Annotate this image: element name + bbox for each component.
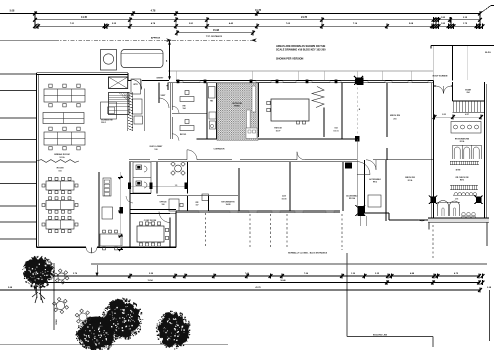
svg-text:RR 104: RR 104 <box>349 197 355 200</box>
svg-text:SCALE DRAWING #16 BLDG KEY 102: SCALE DRAWING #16 BLDG KEY 102-200 <box>276 48 326 51</box>
svg-text:201 A: 201 A <box>408 179 413 182</box>
svg-text:1.75: 1.75 <box>455 199 458 201</box>
svg-text:104 B: 104 B <box>226 203 231 206</box>
svg-text:B RM: B RM <box>456 170 461 172</box>
svg-text:BUILDING LINE: BUILDING LINE <box>373 334 388 336</box>
svg-text:RM 108: RM 108 <box>274 128 282 130</box>
svg-text:RM 105: RM 105 <box>180 134 186 136</box>
svg-text:ROOM: ROOM <box>57 168 64 170</box>
svg-text:101 A: 101 A <box>59 156 65 159</box>
svg-text:102-1: 102-1 <box>101 122 107 124</box>
svg-text:BLDG: BLDG <box>485 52 491 54</box>
svg-text:16.46: 16.46 <box>280 279 286 282</box>
svg-text:SHOWN PER VERSION: SHOWN PER VERSION <box>276 58 304 61</box>
svg-text:2.03: 2.03 <box>442 114 446 116</box>
svg-text:11.54: 11.54 <box>147 279 153 282</box>
svg-text:MECH RM: MECH RM <box>405 177 415 179</box>
svg-text:4.57: 4.57 <box>465 113 469 116</box>
svg-text:MECH RM: MECH RM <box>390 115 400 117</box>
svg-text:204: 204 <box>467 91 470 94</box>
svg-text:APPROX: APPROX <box>151 37 161 40</box>
svg-text:ENTRY: ENTRY <box>157 78 164 80</box>
svg-text:41.78: 41.78 <box>255 286 261 289</box>
svg-text:15.98: 15.98 <box>213 29 220 32</box>
svg-text:BREAK ROOM: BREAK ROOM <box>54 153 69 156</box>
svg-text:WTR: WTR <box>133 84 138 86</box>
svg-text:101 E: 101 E <box>282 199 288 201</box>
svg-text:RM 2: RM 2 <box>460 180 464 182</box>
svg-text:NORMALLY CLOSED - BLDG ENTRANC: NORMALLY CLOSED - BLDG ENTRANCE <box>288 252 328 255</box>
svg-text:ROAD: ROAD <box>55 319 58 325</box>
svg-text:VEST: VEST <box>161 95 167 97</box>
svg-text:101 G: 101 G <box>333 130 339 132</box>
svg-text:106: 106 <box>162 204 165 206</box>
svg-text:24.78: 24.78 <box>301 16 308 19</box>
svg-text:14.45: 14.45 <box>81 16 88 19</box>
svg-text:ELEV LOBBY: ELEV LOBBY <box>150 146 163 148</box>
svg-text:TYP. DISTANCE: TYP. DISTANCE <box>206 35 223 38</box>
svg-text:5.08: 5.08 <box>10 10 15 13</box>
svg-text:201: 201 <box>393 119 396 121</box>
svg-text:41.78: 41.78 <box>255 9 262 12</box>
svg-text:PATIO: PATIO <box>234 104 240 107</box>
svg-text:100: 100 <box>154 149 157 151</box>
svg-text:RR 2: RR 2 <box>373 182 377 184</box>
svg-text:CORRIDOR: CORRIDOR <box>214 149 225 151</box>
svg-text:1.5: 1.5 <box>175 185 178 187</box>
svg-text:203 A: 203 A <box>460 140 465 143</box>
svg-text:STAIR: STAIR <box>465 89 471 92</box>
svg-text:104: 104 <box>183 107 186 110</box>
svg-text:ROOF SCREEN: ROOF SCREEN <box>433 75 448 77</box>
svg-text:4.78: 4.78 <box>151 10 156 13</box>
svg-text:107: 107 <box>196 205 199 207</box>
svg-text:105: 105 <box>149 223 152 225</box>
svg-text:101 F: 101 F <box>276 130 282 132</box>
